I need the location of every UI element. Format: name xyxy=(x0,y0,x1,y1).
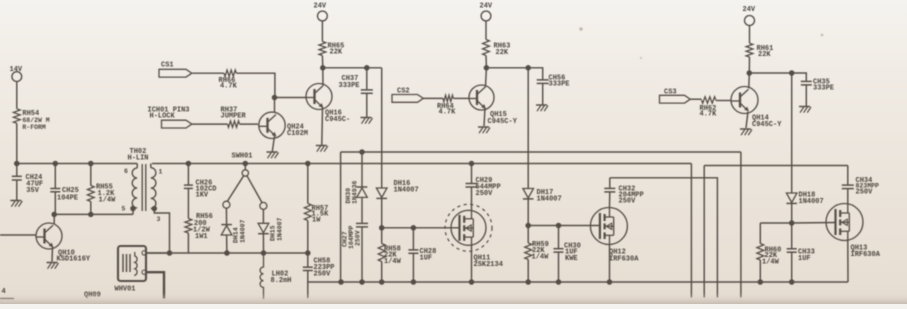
input H-LOCK xyxy=(162,120,192,128)
junction xyxy=(51,212,93,218)
svg-text:CS1: CS1 xyxy=(161,62,174,70)
junction xyxy=(186,161,475,167)
transistor QH15 xyxy=(469,85,518,126)
wire xyxy=(703,166,705,298)
svg-text:14V: 14V xyxy=(10,66,23,74)
svg-text:4.7K: 4.7K xyxy=(220,83,238,91)
junction xyxy=(484,65,531,71)
capacitor CH27 xyxy=(342,223,369,282)
page bottom shadow xyxy=(0,293,907,304)
wire xyxy=(236,73,275,97)
wire QH14 emitter xyxy=(746,112,748,128)
wire ground line xyxy=(341,151,741,153)
junction xyxy=(359,149,365,155)
wire xyxy=(53,214,55,223)
junction xyxy=(320,65,370,71)
wire xyxy=(321,56,323,68)
wire QH16 collector xyxy=(322,68,324,86)
svg-text:333PE: 333PE xyxy=(339,82,360,90)
transistor QH16 xyxy=(306,84,350,125)
svg-text:22K: 22K xyxy=(496,49,509,57)
svg-text:8.2mH: 8.2mH xyxy=(271,277,292,285)
capacitor CH32 xyxy=(604,178,643,208)
ground xyxy=(267,152,279,158)
svg-text:H-LIN: H-LIN xyxy=(128,155,149,163)
wire xyxy=(486,68,542,80)
capacitor CH34 xyxy=(842,166,879,204)
junction xyxy=(789,220,795,226)
resistor RH56 xyxy=(185,188,213,253)
wire xyxy=(146,252,169,254)
transformer TH02 xyxy=(122,148,163,223)
wire xyxy=(321,21,323,42)
svg-text:333PE: 333PE xyxy=(549,81,570,89)
svg-text:5: 5 xyxy=(122,206,126,213)
svg-text:KWE: KWE xyxy=(565,255,578,263)
svg-text:6: 6 xyxy=(124,168,128,175)
wire QH16 emitter xyxy=(321,107,324,145)
junction xyxy=(167,250,267,256)
svg-text:1N4007: 1N4007 xyxy=(277,217,284,241)
junction xyxy=(747,70,795,76)
junction xyxy=(338,279,794,285)
wire main bus xyxy=(152,163,691,165)
wire QH12 gate xyxy=(528,225,600,227)
wire xyxy=(690,164,692,298)
svg-text:1W: 1W xyxy=(312,217,321,225)
node page mark 4 xyxy=(0,288,14,299)
wire pin3 xyxy=(154,209,169,253)
ground xyxy=(361,118,373,124)
capacitor CH28 xyxy=(408,228,436,282)
svg-text:DH15: DH15 xyxy=(270,225,277,241)
capacitor CH37 xyxy=(339,68,373,117)
diode DH30 xyxy=(345,152,367,223)
svg-text:1W1: 1W1 xyxy=(195,233,208,241)
resistor RH55 xyxy=(87,164,116,215)
svg-text:2SK2134: 2SK2134 xyxy=(474,261,503,269)
junction xyxy=(305,250,311,256)
input CS2 xyxy=(392,88,423,103)
transistor QH14 xyxy=(731,87,782,130)
svg-text:104PE: 104PE xyxy=(57,195,78,203)
node 24V supply xyxy=(480,3,493,21)
capacitor CH24 xyxy=(12,164,43,201)
svg-text:1/4W: 1/4W xyxy=(384,258,402,266)
svg-text:C945C-Y: C945C-Y xyxy=(488,118,518,126)
node 14V supply xyxy=(10,66,23,82)
wire QH12 source xyxy=(609,245,611,283)
wire QH24 collector xyxy=(274,98,276,113)
svg-text:IRF630A: IRF630A xyxy=(609,256,639,264)
svg-text:1/4W: 1/4W xyxy=(532,254,550,262)
capacitor CH30 xyxy=(554,226,581,283)
wire QH10 base xyxy=(0,234,36,236)
wire QH15 emitter xyxy=(484,108,485,126)
node 24V supply xyxy=(743,6,756,26)
capacitor CH58 xyxy=(303,253,335,282)
transistor QH13 xyxy=(826,204,881,260)
svg-text:1: 1 xyxy=(159,168,163,175)
svg-text:4.7K: 4.7K xyxy=(439,109,457,117)
wire xyxy=(485,21,487,40)
svg-text:DH14: DH14 xyxy=(233,227,240,243)
wire xyxy=(381,198,383,227)
svg-text:C102M: C102M xyxy=(287,130,308,138)
wire QH15 base xyxy=(453,97,469,99)
svg-text:1N4007: 1N4007 xyxy=(240,219,247,243)
resistor RH37 xyxy=(221,107,247,128)
svg-text:1N4007: 1N4007 xyxy=(799,198,824,206)
resistor RH54 xyxy=(13,109,49,131)
resistor RH63 xyxy=(483,40,511,58)
capacitor CH35 xyxy=(801,79,834,107)
switch SWH01 xyxy=(223,153,267,210)
capacitor CH26 xyxy=(184,164,217,200)
wire xyxy=(749,26,751,44)
transistor QH24 xyxy=(259,112,308,138)
svg-text:22K: 22K xyxy=(330,49,343,57)
svg-text:250V: 250V xyxy=(314,271,332,279)
wire xyxy=(485,56,487,68)
svg-text:1KV: 1KV xyxy=(196,192,209,200)
resistor RH58 xyxy=(378,228,401,282)
resistor RH66 xyxy=(219,70,238,91)
diode DH16 xyxy=(376,180,418,198)
svg-text:C945C-: C945C- xyxy=(325,116,350,124)
wire QH10 emitter xyxy=(51,247,54,262)
input CS1 xyxy=(159,62,192,78)
svg-text:1UF: 1UF xyxy=(420,255,433,263)
svg-text:1N4007: 1N4007 xyxy=(537,196,562,204)
svg-text:24V: 24V xyxy=(314,3,327,11)
transistor QH11 xyxy=(445,204,503,269)
wire xyxy=(340,152,342,282)
ground xyxy=(536,105,548,111)
wire xyxy=(749,73,806,81)
wire xyxy=(16,82,18,109)
ground xyxy=(47,263,59,269)
wire QH24 base xyxy=(240,123,259,125)
wire xyxy=(192,72,224,74)
svg-text:333PE: 333PE xyxy=(813,85,834,93)
capacitor CH29 xyxy=(466,164,501,211)
wire QH13 gate xyxy=(792,222,836,225)
wire xyxy=(791,203,793,223)
wire xyxy=(691,98,702,100)
wire main bus left xyxy=(14,163,137,165)
svg-text:C945C-Y: C945C-Y xyxy=(752,121,782,129)
wire QH15 to gate xyxy=(527,68,529,189)
svg-text:4.7K: 4.7K xyxy=(700,111,718,119)
resistor RH60 xyxy=(757,223,781,282)
svg-text:1N4007: 1N4007 xyxy=(394,187,419,195)
wire xyxy=(16,123,18,163)
input CS3 xyxy=(660,89,691,104)
connector WHV01 xyxy=(115,246,147,294)
resistor RH57 xyxy=(304,164,329,254)
wire thick to QH09 xyxy=(146,272,164,298)
wire xyxy=(323,67,382,69)
ground xyxy=(10,201,22,207)
capacitor CH33 xyxy=(787,223,815,282)
wire xyxy=(740,152,742,298)
svg-text:22K: 22K xyxy=(758,51,771,59)
svg-text:SWH01: SWH01 xyxy=(232,153,253,161)
ground xyxy=(478,127,490,133)
svg-text:KSD1616Y: KSD1616Y xyxy=(57,256,91,264)
svg-text:1N4936: 1N4936 xyxy=(352,180,359,204)
wire QH11 source xyxy=(471,245,473,282)
junction xyxy=(379,225,416,231)
inductor LH02 xyxy=(260,253,291,299)
resistor RH65 xyxy=(319,42,344,57)
wire QH13 source xyxy=(847,241,849,283)
diode DH15 xyxy=(258,209,283,253)
resistor RH59 xyxy=(525,226,549,283)
wire xyxy=(192,123,228,125)
svg-text:3: 3 xyxy=(157,216,161,223)
node 24V supply xyxy=(314,3,328,21)
junction xyxy=(14,161,94,167)
junction pin3 xyxy=(152,206,158,212)
junction pin5 xyxy=(130,206,136,212)
svg-text:35V: 35V xyxy=(26,187,39,195)
ground xyxy=(740,129,752,135)
svg-text:250V: 250V xyxy=(355,230,362,246)
svg-text:250V: 250V xyxy=(476,190,494,198)
svg-text:1/4W: 1/4W xyxy=(99,197,117,205)
junction xyxy=(525,223,561,229)
svg-text:JUMPER: JUMPER xyxy=(221,113,247,121)
wire xyxy=(423,97,443,99)
wire QH14 collector xyxy=(748,73,751,88)
wire xyxy=(307,282,309,298)
svg-text:250V: 250V xyxy=(856,189,874,197)
resistor RH61 xyxy=(746,43,773,59)
speck xyxy=(579,27,823,59)
svg-text:68/2W M: 68/2W M xyxy=(22,117,49,124)
wire QH16 to gate xyxy=(381,68,383,188)
resistor RH62 xyxy=(700,97,718,119)
wire xyxy=(54,209,133,215)
wire QH14 to gate xyxy=(791,73,793,193)
svg-text:1UF: 1UF xyxy=(798,255,811,263)
transistor QH10 xyxy=(36,223,91,264)
wire xyxy=(527,199,529,226)
wire xyxy=(748,57,750,73)
wire QH11 gate xyxy=(382,227,460,229)
node QH09 label xyxy=(84,292,101,300)
resistor RH64 xyxy=(437,95,456,116)
svg-text:24V: 24V xyxy=(480,3,493,11)
transistor QH12 xyxy=(590,208,639,264)
wire QH16 base xyxy=(275,97,307,99)
svg-text:24V: 24V xyxy=(743,6,756,14)
svg-text:IRF630A: IRF630A xyxy=(851,251,881,259)
capacitor CH56 xyxy=(537,75,570,105)
wire xyxy=(272,136,274,151)
diode DH14 xyxy=(221,208,246,253)
wire QH14 base xyxy=(716,100,731,102)
wire xyxy=(760,222,791,224)
wire QH15 collector xyxy=(485,68,488,87)
junction xyxy=(272,95,278,101)
diode DH18 xyxy=(786,192,823,207)
svg-text:R-FORM: R-FORM xyxy=(22,124,46,131)
svg-text:H-LOCK: H-LOCK xyxy=(150,113,176,121)
wire line3 xyxy=(610,178,718,298)
svg-text:WHV01: WHV01 xyxy=(115,286,136,294)
wire line2b xyxy=(704,165,848,167)
svg-text:1/4W: 1/4W xyxy=(762,259,780,267)
svg-text:250V: 250V xyxy=(619,198,637,206)
ground xyxy=(316,146,328,152)
wire bottom bus xyxy=(308,281,848,283)
capacitor CH25 xyxy=(50,164,79,215)
wire xyxy=(147,252,308,254)
node ICH01 PIN3 label xyxy=(148,107,190,121)
ground xyxy=(799,107,811,113)
diode DH17 xyxy=(523,189,562,204)
